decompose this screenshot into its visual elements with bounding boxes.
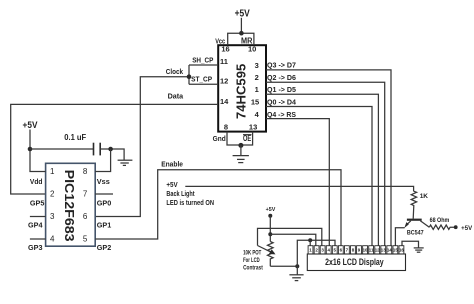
wire U2 GP0 stub bbox=[95, 193, 113, 195]
svg-text:PIC12F683: PIC12F683 bbox=[62, 170, 77, 242]
svg-text:16: 16 bbox=[221, 45, 229, 54]
svg-text:15: 15 bbox=[251, 98, 259, 107]
wire wiper to LCD pin 3 bbox=[258, 228, 322, 245]
svg-text:Vcc: Vcc bbox=[215, 36, 225, 45]
svg-text:Q0 -> D4: Q0 -> D4 bbox=[267, 98, 297, 107]
svg-text:1: 1 bbox=[255, 85, 259, 94]
potentiometer R3 10K body bbox=[267, 242, 273, 267]
wire U2 Vss up to capacitor bbox=[95, 149, 110, 172]
wire Q1 -> D5 (to LCD pin 12) bbox=[266, 94, 378, 245]
svg-text:2: 2 bbox=[255, 73, 259, 82]
svg-text:2x16 LCD Display: 2x16 LCD Display bbox=[325, 257, 384, 267]
svg-text:11: 11 bbox=[369, 248, 374, 253]
LCD module body 2x16 bbox=[307, 254, 405, 271]
wire +5V down to potentiometer bbox=[269, 216, 271, 242]
svg-text:16: 16 bbox=[399, 248, 404, 253]
svg-text:Q4 -> RS: Q4 -> RS bbox=[267, 110, 296, 119]
svg-text:Back Light: Back Light bbox=[166, 191, 195, 198]
capacitor C1 0.1uF bbox=[94, 143, 101, 156]
junction capacitor / Vss bbox=[108, 147, 113, 152]
wire potentiometer bottom to ground bbox=[270, 265, 297, 267]
svg-text:3: 3 bbox=[50, 212, 55, 221]
wire U1 Gnd/OE bottom rail bbox=[227, 132, 253, 145]
wire Enable from U2 GP2 to LCD pin 6 bbox=[95, 170, 341, 246]
svg-text:13: 13 bbox=[381, 248, 386, 253]
LCD module pin header (pins 1-16) bbox=[308, 246, 404, 254]
wire Q0 -> D4 (to LCD pin 11) bbox=[266, 107, 372, 246]
ground (near capacitor) bbox=[118, 160, 133, 165]
svg-text:8: 8 bbox=[83, 167, 88, 176]
wire +5V back light rail to R1 bbox=[185, 186, 413, 191]
svg-text:ST_CP: ST_CP bbox=[191, 75, 212, 84]
svg-text:OE: OE bbox=[243, 134, 252, 143]
svg-text:6: 6 bbox=[83, 212, 88, 221]
svg-text:4: 4 bbox=[50, 234, 55, 243]
svg-text:Q1 -> D5: Q1 -> D5 bbox=[267, 85, 296, 94]
junction +5V rail to LCD pin 2 bbox=[268, 232, 272, 236]
svg-text:+5V: +5V bbox=[166, 182, 178, 189]
svg-text:Enable: Enable bbox=[161, 159, 183, 168]
svg-text:1: 1 bbox=[50, 167, 55, 176]
svg-text:8: 8 bbox=[224, 123, 228, 132]
svg-text:Data: Data bbox=[168, 91, 184, 100]
svg-text:2: 2 bbox=[50, 189, 55, 198]
wire Q3 -> D7 (to LCD pin 14) bbox=[266, 70, 391, 246]
svg-text:GP1: GP1 bbox=[97, 220, 112, 229]
svg-text:0.1 uF: 0.1 uF bbox=[64, 133, 86, 142]
junction ground node (pot) bbox=[295, 264, 299, 268]
wire +5V to LCD pin 2 bbox=[270, 234, 316, 245]
ground (below U1) bbox=[233, 145, 249, 162]
wire LCD pin 16 to ground bbox=[402, 241, 419, 248]
svg-text:GP0: GP0 bbox=[97, 199, 112, 208]
svg-text:MR: MR bbox=[241, 37, 253, 46]
svg-text:7: 7 bbox=[83, 189, 88, 198]
svg-text:For LCD: For LCD bbox=[243, 258, 260, 264]
svg-text:10: 10 bbox=[363, 248, 368, 253]
ground (below Q1) bbox=[414, 248, 424, 252]
junction LCD pin 1 branch bbox=[308, 238, 312, 242]
wire capacitor left lead bbox=[30, 148, 94, 150]
wire ST_CP (U1 pin 12) bbox=[189, 83, 218, 85]
svg-text:GP3: GP3 bbox=[28, 243, 43, 252]
svg-text:Gnd: Gnd bbox=[213, 134, 226, 143]
wire Q1 emitter to LCD pin 15 bbox=[395, 228, 404, 246]
svg-text:15: 15 bbox=[393, 248, 398, 253]
wire SH_CP (U1 pin 11) bbox=[189, 64, 218, 66]
+5V supply stub to U1 bbox=[240, 18, 242, 34]
svg-text:1K: 1K bbox=[420, 193, 429, 200]
wire branch to LCD pin 1 bbox=[309, 240, 311, 246]
svg-text:12: 12 bbox=[220, 77, 228, 86]
svg-text:14: 14 bbox=[387, 248, 392, 253]
junction OE rail / ground bbox=[238, 143, 243, 148]
svg-text:GP5: GP5 bbox=[30, 199, 45, 208]
svg-text:Q3 -> D7: Q3 -> D7 bbox=[267, 61, 296, 70]
transistor Q1 BC547 bbox=[404, 220, 429, 228]
wire Q4 -> RS (to LCD pin 4) bbox=[266, 119, 329, 246]
svg-text:Vdd: Vdd bbox=[30, 177, 43, 186]
wire capacitor right lead to ground bbox=[100, 149, 124, 160]
ground (pot / LCD) bbox=[289, 266, 303, 280]
junction +5V / capacitor bbox=[28, 147, 33, 152]
wire U2 GP4 stub bbox=[30, 216, 46, 218]
svg-text:13: 13 bbox=[249, 123, 257, 132]
potentiometer wiper arrow bbox=[258, 246, 276, 255]
svg-text:+5V: +5V bbox=[266, 207, 276, 213]
svg-text:10: 10 bbox=[248, 45, 256, 54]
IC U1 74HC595 body bbox=[218, 45, 266, 131]
svg-text:BC547: BC547 bbox=[407, 230, 424, 236]
svg-text:74HC595: 74HC595 bbox=[233, 64, 248, 119]
svg-text:Vss: Vss bbox=[97, 177, 110, 186]
wire clock branch vertical bbox=[188, 65, 190, 84]
svg-text:3: 3 bbox=[255, 61, 259, 70]
svg-text:12: 12 bbox=[375, 248, 380, 253]
svg-text:SH_CP: SH_CP bbox=[192, 56, 213, 65]
wire ground node up to LCD pins 1 and 5 bbox=[297, 240, 335, 266]
+5V terminal (potentiometer) bbox=[268, 214, 272, 218]
junction clock node bbox=[187, 74, 192, 79]
svg-text:GP4: GP4 bbox=[28, 220, 43, 229]
svg-text:Contrast: Contrast bbox=[243, 265, 263, 271]
svg-text:68 Ohm: 68 Ohm bbox=[430, 217, 450, 224]
wire U2 GP3 stub bbox=[30, 238, 46, 240]
junction +5V / MR rail bbox=[239, 31, 244, 36]
svg-text:+5V: +5V bbox=[235, 8, 250, 19]
svg-text:GP2: GP2 bbox=[97, 243, 112, 252]
svg-text:+5V: +5V bbox=[461, 226, 472, 232]
resistor R1 1K bbox=[411, 191, 416, 219]
svg-text:11: 11 bbox=[220, 57, 228, 66]
wire Data from PIC GP5 to U1 pin 14 bbox=[11, 104, 218, 194]
svg-text:Q2 -> D6: Q2 -> D6 bbox=[267, 73, 296, 82]
IC U2 PIC12F683 body bbox=[46, 163, 96, 246]
wire Q2 -> D6 (to LCD pin 13) bbox=[266, 82, 385, 246]
svg-text:+5V: +5V bbox=[23, 120, 38, 131]
wire U1 Vcc/MR top rail bbox=[228, 33, 254, 45]
wire Clock from PIC GP1 bbox=[95, 77, 189, 217]
svg-text:5: 5 bbox=[83, 234, 88, 243]
wire +5V to U2 Vdd bbox=[30, 130, 46, 172]
svg-text:10K POT: 10K POT bbox=[243, 250, 261, 256]
svg-text:LED is turned ON: LED is turned ON bbox=[166, 200, 214, 207]
OE overline bbox=[243, 134, 252, 136]
svg-text:14: 14 bbox=[220, 97, 229, 106]
svg-text:Clock: Clock bbox=[166, 67, 184, 76]
+5V terminal (right) bbox=[454, 225, 458, 229]
resistor R2 68 Ohm bbox=[429, 225, 455, 229]
